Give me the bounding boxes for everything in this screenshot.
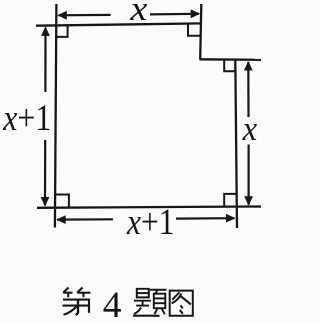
dimension line right (x), upper segment <box>247 62 249 117</box>
arrowhead left-top pointing up <box>41 26 50 36</box>
svg-text:x+1: x+1 <box>2 97 51 138</box>
wire notch horizontal edge (extended right for dimension arrow) <box>200 58 262 61</box>
dimension line right (x), lower segment <box>248 145 250 205</box>
arrowhead top-left pointing left <box>57 11 67 20</box>
arrowhead bottom-left pointing left <box>56 215 65 224</box>
svg-text:x: x <box>129 0 148 28</box>
arrowhead right-bottom pointing down <box>244 196 253 206</box>
dimension line bottom (x+1), left segment <box>57 218 113 221</box>
right-angle mark at notch top (left of notch vertical) <box>188 24 200 36</box>
dimension line left (x+1), lower segment <box>44 140 46 205</box>
right-angle mark bottom-left corner <box>56 195 69 208</box>
arrowhead bottom-right pointing right <box>226 214 236 223</box>
right-angle mark top-left corner <box>56 25 68 37</box>
svg-text:x+1: x+1 <box>126 201 174 242</box>
arrowhead right-top pointing up <box>244 61 253 71</box>
wire notch vertical edge (extended up to dimension line) <box>200 4 201 60</box>
caption character 图 <box>170 291 193 316</box>
dimension line top (x), left segment <box>59 14 111 17</box>
dimension line left (x+1), upper segment <box>44 28 46 93</box>
svg-text:x: x <box>242 109 258 148</box>
caption character 题 <box>133 289 167 316</box>
arrowhead left-bottom pointing down <box>41 197 50 207</box>
caption character 第 <box>63 288 91 316</box>
svg-text:4: 4 <box>103 285 122 323</box>
wire left edge of figure (extended for dimension arrows) <box>55 4 57 228</box>
dimension line top (x), right segment <box>150 13 199 16</box>
wire bottom edge of figure (extended both sides for dimension arrows) <box>37 207 261 208</box>
wire top edge of figure <box>36 23 202 25</box>
arrowhead top-right pointing right <box>191 9 201 18</box>
wire right edge of figure (extended below for dimension arrow) <box>235 60 237 229</box>
right-angle mark at notch right corner <box>224 60 235 71</box>
right-angle mark bottom-right corner <box>224 194 236 207</box>
dimension line bottom (x+1), right segment <box>176 217 234 220</box>
